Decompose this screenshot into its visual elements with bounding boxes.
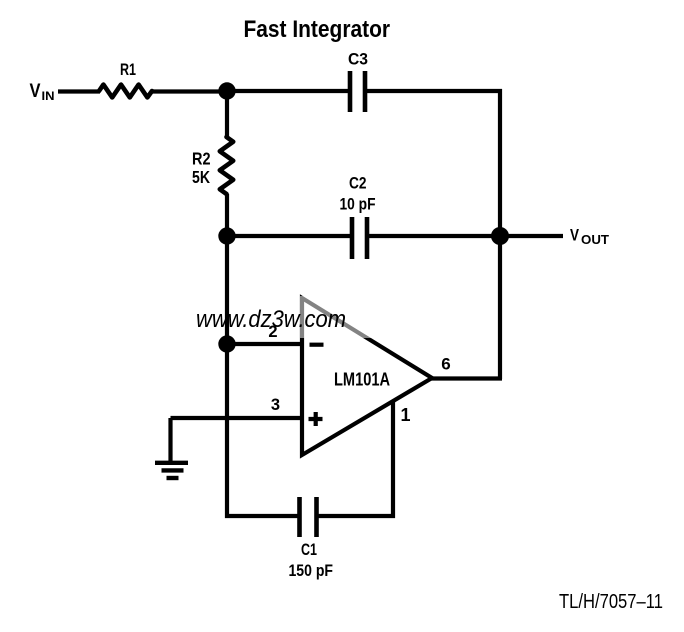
svg-text:5K: 5K bbox=[192, 167, 210, 187]
junction node B bbox=[218, 227, 235, 244]
wire node B to node D bbox=[225, 236, 229, 344]
svg-text:V: V bbox=[570, 226, 580, 245]
wire node A to C3 bbox=[227, 89, 348, 93]
svg-text:LM101A: LM101A bbox=[334, 369, 390, 390]
wire R1 to node A bbox=[152, 89, 227, 93]
wire node B to C2 bbox=[227, 234, 352, 238]
wire VIN to R1 bbox=[58, 89, 100, 93]
net VOUT label bbox=[570, 226, 609, 248]
op-amp U1 LM101A bbox=[302, 298, 432, 455]
svg-text:1: 1 bbox=[400, 405, 410, 425]
svg-text:C1: C1 bbox=[301, 540, 317, 559]
wire node C to VOUT bbox=[500, 234, 563, 238]
junction node D bbox=[218, 335, 235, 352]
svg-text:150 pF: 150 pF bbox=[289, 562, 334, 580]
resistor R2 bbox=[220, 137, 233, 194]
svg-text:TL/H/7057–11: TL/H/7057–11 bbox=[559, 591, 663, 613]
svg-text:R1: R1 bbox=[120, 60, 136, 79]
wire ground to non-inverting input bbox=[171, 416, 303, 420]
capacitor C2 bbox=[352, 217, 367, 259]
ground bbox=[155, 418, 188, 478]
svg-text:3: 3 bbox=[271, 396, 280, 414]
wire C2 to node C bbox=[369, 234, 500, 238]
svg-text:R2: R2 bbox=[192, 149, 211, 169]
wire pin 1 to C1 bbox=[318, 400, 393, 516]
net VIN label bbox=[30, 81, 55, 103]
junction node C bbox=[491, 227, 509, 245]
wire node D to inverting input bbox=[227, 342, 302, 346]
wire R2 to node B bbox=[225, 194, 229, 236]
svg-text:C3: C3 bbox=[348, 50, 368, 69]
capacitor C3 bbox=[350, 71, 365, 112]
capacitor C1 bbox=[300, 497, 317, 537]
svg-text:6: 6 bbox=[441, 355, 450, 374]
wire node A to R2 bbox=[225, 91, 229, 138]
junction node A bbox=[218, 82, 235, 99]
watermark lightening overlay bbox=[300, 296, 465, 338]
svg-text:V: V bbox=[30, 81, 41, 102]
wire op-amp output to right rail bbox=[430, 376, 502, 380]
resistor R1 bbox=[99, 85, 152, 98]
svg-text:OUT: OUT bbox=[581, 233, 609, 247]
svg-text:IN: IN bbox=[42, 89, 55, 103]
wire node D to C1 (left bottom) bbox=[227, 344, 298, 516]
svg-text:2: 2 bbox=[268, 323, 277, 341]
watermark www.dz3w.com (over triangle) bbox=[196, 306, 346, 333]
svg-text:Fast Integrator: Fast Integrator bbox=[244, 16, 391, 43]
wire C3 to right rail bbox=[367, 89, 502, 93]
svg-text:C2: C2 bbox=[349, 175, 367, 193]
wire right rail (feedback) bbox=[498, 89, 502, 379]
svg-text:10 pF: 10 pF bbox=[340, 196, 376, 214]
